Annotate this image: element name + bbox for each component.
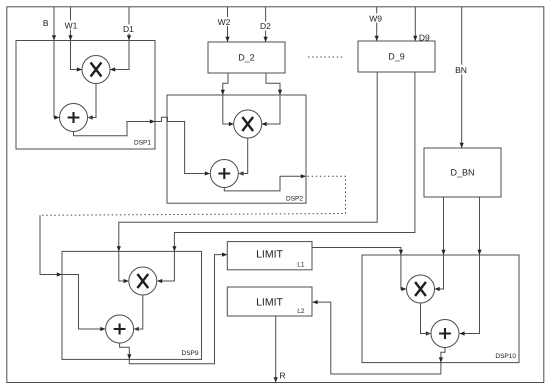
svg-text:DSP10: DSP10: [495, 353, 516, 360]
node label D2: [258, 21, 273, 31]
arrowhead into L2 right: [312, 300, 317, 304]
arrowhead D1 into DSP1: [127, 35, 131, 40]
arrowhead into X9 left: [124, 279, 129, 283]
arrowhead into X10 right: [435, 287, 440, 291]
wire D9 input: [414, 7, 416, 41]
wire W1 input: [71, 7, 82, 70]
block LIMIT L2: [227, 287, 312, 316]
arrowhead into X2 right: [262, 122, 267, 126]
arrowhead DSP9 output at bottom edge: [127, 354, 131, 359]
dotted continuation between D_2 and D_9: [308, 56, 343, 58]
block D_2: [208, 42, 285, 73]
multiplier X (DSP10): [407, 275, 435, 303]
arrowhead DSP2 output at right edge: [301, 174, 306, 178]
wire DSP2 adder output to right edge: [224, 176, 305, 191]
node label B: [43, 18, 49, 28]
multiplier X (DSP9): [129, 267, 157, 295]
wire D_9 right output to DSP9 X right: [158, 72, 415, 281]
svg-text:W9: W9: [369, 13, 382, 23]
block DSP1: [16, 41, 155, 150]
block DSP2: [167, 95, 306, 203]
wire B input: [54, 7, 59, 118]
arrowhead D_2 left out into DSP2 top: [221, 90, 225, 95]
arrowhead into +2 right: [238, 171, 243, 175]
arrowhead W2 into D_2: [225, 37, 229, 42]
adder + (DSP1): [60, 104, 88, 132]
arrowhead L1 out into DSP10 top: [399, 250, 403, 255]
wire D_BN right output to DSP10 adder right: [460, 197, 480, 334]
svg-text:R: R: [280, 371, 286, 381]
arrowhead into +10 left: [426, 331, 431, 335]
arrowhead into DSP9 left edge: [57, 272, 62, 276]
arrowhead into + left (DSP1): [54, 115, 59, 119]
svg-text:DSP2: DSP2: [286, 195, 303, 202]
wire DSP10 adder output feedback to LIMIT L2: [313, 302, 445, 374]
arrowhead into L1 left: [222, 253, 227, 257]
wire D_2 left output to DSP2 X: [223, 73, 234, 124]
svg-text:D1: D1: [123, 24, 134, 34]
arrowhead B into DSP1: [52, 35, 56, 40]
svg-text:LIMIT: LIMIT: [256, 297, 283, 309]
block DSP9: [62, 251, 202, 359]
block D_BN: [424, 148, 501, 197]
block LIMIT L1: [227, 242, 312, 270]
adder + (DSP2): [210, 160, 238, 188]
block D_9: [358, 41, 435, 72]
multiplier X (DSP1): [82, 56, 110, 84]
svg-text:DSP1: DSP1: [134, 140, 151, 147]
adder + (DSP9): [106, 315, 134, 343]
arrowhead D2 into D_2: [264, 37, 268, 42]
arrowhead BN into D_BN: [460, 143, 464, 148]
node label D1: [121, 24, 136, 34]
block DSP10: [362, 255, 519, 363]
arrowhead into +9 left: [100, 327, 105, 331]
arrowhead into +9 right: [134, 327, 139, 331]
node label W1: [63, 20, 79, 30]
multiplier X (DSP2): [234, 110, 262, 138]
svg-text:L2: L2: [297, 308, 305, 315]
wire D_9 left output to DSP9 X left: [119, 72, 377, 281]
wire W2 input: [227, 7, 229, 42]
svg-text:LIMIT: LIMIT: [256, 248, 283, 260]
wire X2 output to adder: [239, 138, 248, 174]
arrowhead D_2 right out into DSP2 top: [278, 90, 282, 95]
wire L1 output to DSP10 X left: [312, 248, 406, 290]
svg-text:D2: D2: [260, 21, 271, 31]
arrowhead into X10 left: [401, 287, 406, 291]
node label W2: [216, 17, 233, 27]
arrowhead D_BN left out into DSP10 top: [441, 250, 445, 255]
arrowhead into + right (DSP1): [88, 115, 93, 119]
svg-text:D_2: D_2: [238, 53, 255, 63]
wire dotted-chain into DSP9 adder: [40, 215, 105, 329]
svg-text:W1: W1: [65, 20, 78, 30]
dotted continuation DSP2 output to DSP9 input: [40, 176, 346, 215]
wire DSP9 adder output to LIMIT L1: [120, 255, 227, 364]
svg-text:D_9: D_9: [388, 52, 405, 62]
node label W9: [367, 13, 385, 23]
arrowhead into X left (DSP1): [77, 67, 82, 71]
arrowhead W1 into DSP1: [68, 35, 72, 40]
arrowhead into X2 left: [229, 122, 234, 126]
arrowhead R at bottom border: [274, 377, 278, 382]
arrowhead D9 into D_9: [413, 36, 417, 41]
svg-text:DSP9: DSP9: [182, 350, 199, 357]
arrowhead into +10 right: [459, 331, 464, 335]
svg-text:W2: W2: [218, 17, 231, 27]
wire DSP1 adder output to DSP2 (with hop over DSP2 edge): [74, 117, 210, 173]
wire X1 output to adder: [89, 84, 97, 118]
node label BN: [454, 65, 469, 76]
wire X10 output to adder: [421, 303, 431, 334]
arrowhead into +2 left (DSP2): [205, 171, 210, 175]
node label R: [280, 371, 286, 381]
wire D_2 right output to DSP2 X: [262, 73, 281, 124]
arrowhead into X right (DSP1): [110, 67, 115, 71]
wire D1 input: [111, 7, 130, 70]
svg-text:B: B: [43, 18, 49, 28]
arrowhead D_9 left out into DSP9 top: [117, 246, 121, 251]
svg-text:D_BN: D_BN: [450, 168, 474, 178]
wire D2 input: [265, 7, 267, 42]
arrowhead DSP1 output at right edge: [150, 119, 155, 123]
node label D9: [417, 32, 432, 42]
arrowhead into X9 right: [157, 279, 162, 283]
arrowhead DSP10 output at bottom edge: [439, 357, 443, 362]
wire BN input: [461, 7, 463, 148]
svg-text:L1: L1: [297, 262, 305, 269]
arrowhead D_BN right out into DSP10 top: [477, 250, 481, 255]
svg-text:BN: BN: [455, 65, 467, 75]
wire X9 output to adder: [134, 295, 143, 329]
wire D_BN left output to DSP10 X right: [435, 197, 444, 289]
wire W9 input: [376, 7, 378, 41]
adder + (DSP10): [431, 320, 459, 348]
arrowhead W9 into D_9: [375, 36, 379, 41]
arrowhead D_9 right out into DSP9 top: [172, 246, 176, 251]
wire L2 output R: [275, 316, 277, 382]
